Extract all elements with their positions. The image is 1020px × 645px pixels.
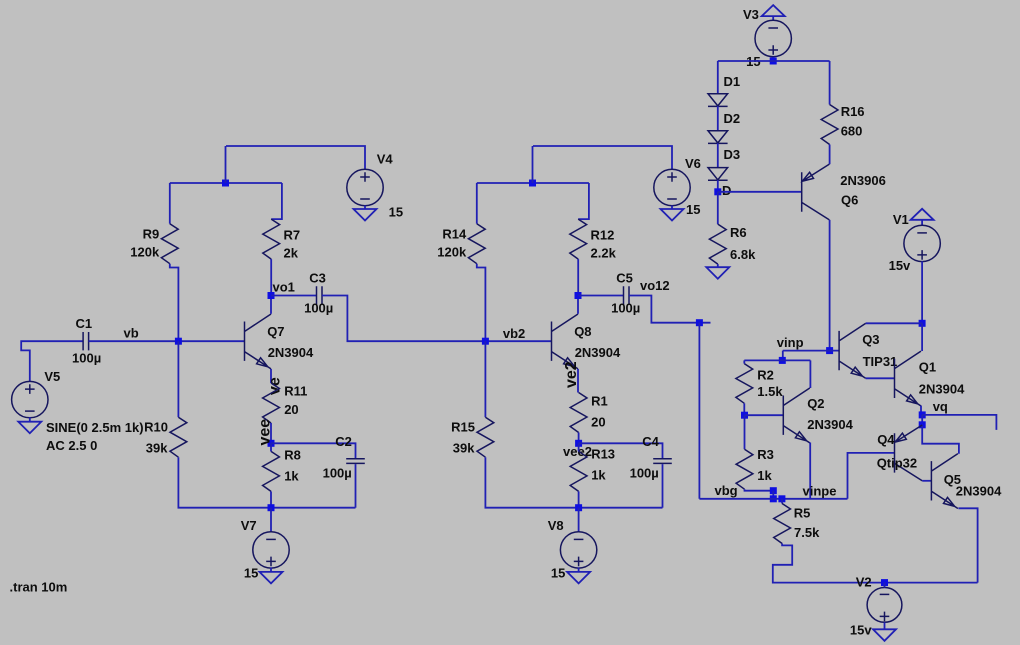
wire R3 bottom jog: [745, 489, 774, 491]
wire V2 to ground stub: [884, 622, 886, 629]
junction node vee: [268, 440, 275, 447]
svg-text:R1: R1: [591, 394, 608, 409]
svg-text:V4: V4: [377, 152, 394, 167]
wire V8 to ground stub: [578, 567, 580, 572]
junction node vb: [175, 338, 182, 345]
wire V4 to ground stub: [364, 206, 366, 210]
svg-text:R2: R2: [757, 368, 774, 383]
wire vo1 to C3: [271, 295, 317, 297]
svg-text:39k: 39k: [453, 441, 475, 456]
wire Q2 collector up: [809, 360, 811, 388]
svg-text:TIP31: TIP31: [863, 354, 898, 369]
transistor Q7: [245, 314, 272, 369]
ground above V3: [762, 5, 785, 16]
voltage source V2: [867, 588, 902, 623]
svg-text:15v: 15v: [850, 623, 872, 638]
wire V5 to C1: [21, 341, 83, 382]
svg-text:vbg: vbg: [715, 483, 738, 498]
wire to Q2 base: [745, 414, 784, 416]
ground under V7: [260, 572, 283, 584]
svg-text:2.2k: 2.2k: [591, 246, 617, 261]
svg-text:R3: R3: [757, 447, 774, 462]
resistor R10: [170, 417, 187, 457]
svg-text:vq: vq: [933, 399, 948, 414]
wire R5 top lead: [781, 499, 783, 504]
wire D2 to D3: [717, 143, 719, 167]
svg-text:7.5k: 7.5k: [794, 525, 820, 540]
wire Q8 collector to vo12: [577, 296, 579, 314]
junction C5 output corner: [696, 319, 703, 326]
wire C2 bottom: [355, 464, 357, 508]
svg-text:V2: V2: [856, 574, 872, 589]
wire R12 bottom to vo12: [577, 259, 579, 295]
transistor Q8: [552, 314, 579, 369]
wire down to Q1 collector: [921, 323, 923, 351]
svg-text:V3: V3: [743, 7, 759, 22]
svg-text:vo1: vo1: [273, 280, 295, 295]
wire D1 to D2: [717, 106, 719, 131]
svg-text:R7: R7: [284, 228, 301, 243]
voltage source V5: [12, 381, 48, 417]
wire R14-R12 rail stage2: [477, 182, 589, 184]
svg-text:1k: 1k: [284, 468, 299, 483]
svg-text:R8: R8: [284, 448, 301, 463]
wire R11 bottom to vee: [270, 423, 272, 443]
wire R9-R7 rail stage1: [170, 182, 282, 184]
svg-text:V6: V6: [685, 156, 701, 171]
wire Q3 emitter to Q1 base: [866, 377, 895, 379]
svg-text:15: 15: [551, 566, 565, 581]
svg-text:6.8k: 6.8k: [730, 247, 756, 262]
svg-text:100µ: 100µ: [611, 301, 640, 316]
svg-text:1k: 1k: [591, 468, 606, 483]
svg-text:R9: R9: [143, 227, 160, 242]
svg-text:Q7: Q7: [267, 324, 284, 339]
wire Q7 emitter to R11: [270, 369, 272, 383]
resistor R8: [263, 451, 280, 491]
junction node vo1: [268, 292, 275, 299]
wire ground to V3 stub: [772, 16, 774, 20]
wire R6 to ground lead: [717, 264, 719, 267]
wire rail to V7: [270, 508, 272, 533]
resistor R16: [821, 105, 838, 145]
resistor R11: [263, 383, 280, 423]
voltage source V8: [560, 532, 596, 568]
voltage source V6: [654, 169, 690, 205]
svg-text:C2: C2: [335, 434, 352, 449]
svg-text:120k: 120k: [437, 245, 467, 260]
junction node D: [714, 188, 721, 195]
svg-text:vb2: vb2: [503, 326, 525, 341]
wire D3 to node D: [717, 180, 719, 192]
junction Q4 emitter node: [919, 421, 926, 428]
wire Q6 collector down to vinp: [829, 220, 831, 351]
wire R1 bottom to vee2: [578, 433, 580, 444]
svg-text:15: 15: [686, 202, 700, 217]
svg-text:100µ: 100µ: [304, 301, 333, 316]
wire vee to C2: [271, 443, 356, 459]
capacitor C4: [653, 459, 672, 464]
svg-text:R5: R5: [794, 506, 811, 521]
wire V1 down to Q3 collector node: [921, 261, 923, 323]
svg-text:2N3904: 2N3904: [807, 417, 853, 432]
junction R2-R3 node: [741, 412, 748, 419]
junction node vb2: [482, 338, 489, 345]
junction V2 rail: [881, 579, 888, 586]
junction node vee2: [575, 440, 582, 447]
svg-text:100µ: 100µ: [323, 465, 352, 480]
capacitor C3: [317, 286, 323, 304]
ground under R6: [706, 267, 729, 279]
ground under V6: [661, 209, 684, 221]
capacitor C5: [624, 286, 630, 304]
wire R13 top lead: [578, 443, 580, 451]
resistor R15: [477, 417, 494, 457]
wire C5 output down: [629, 296, 711, 323]
resistor R6: [709, 224, 726, 264]
resistor R7: [263, 219, 280, 259]
wire rail to top rail stage1: [225, 146, 227, 183]
svg-text:100µ: 100µ: [630, 465, 659, 480]
svg-text:Q1: Q1: [919, 359, 936, 374]
junction node stage1 rail: [222, 180, 229, 187]
svg-text:120k: 120k: [130, 245, 160, 260]
svg-text:D: D: [722, 183, 731, 198]
svg-text:C5: C5: [616, 271, 633, 286]
wire R3 node down: [772, 491, 774, 499]
wire R9 top lead: [169, 183, 171, 224]
wire C3 to vb2 net: [322, 296, 552, 342]
wire rail to top rail stage2: [532, 146, 534, 183]
junction node vinp: [826, 347, 833, 354]
wire R7 bottom to vo1: [270, 259, 272, 295]
svg-text:15: 15: [244, 566, 258, 581]
wire rail to V8: [578, 508, 580, 533]
wire vb to R10: [177, 341, 179, 417]
wire node D to Q6 base: [718, 191, 802, 193]
wire vee2 to C4: [579, 443, 663, 459]
svg-text:AC 2.5 0: AC 2.5 0: [46, 438, 97, 453]
resistor R9: [161, 224, 178, 264]
svg-text:C4: C4: [642, 434, 659, 449]
ground under V2: [873, 629, 896, 641]
junction node vo12: [575, 292, 582, 299]
wire top rail stage2 to V6: [533, 146, 672, 170]
transistor Q2: [783, 388, 810, 443]
svg-text:R6: R6: [730, 225, 747, 240]
wire R9 bottom to vb node: [170, 264, 179, 342]
svg-text:2N3904: 2N3904: [268, 345, 314, 360]
wire stage2 bottom rail: [485, 457, 662, 508]
svg-text:R15: R15: [451, 419, 475, 434]
svg-text:R10: R10: [144, 419, 168, 434]
transistor Q4: [895, 425, 923, 481]
wire Q3 collector rail: [866, 322, 923, 324]
voltage source V1: [904, 225, 940, 261]
svg-text:C3: C3: [309, 271, 326, 286]
resistor R2: [736, 364, 753, 404]
wire Q4 collector to Q5 base: [922, 480, 931, 482]
wire R16 to Q6 emitter: [829, 145, 831, 165]
svg-text:vinpe: vinpe: [803, 484, 837, 499]
wire vo12 to C5: [578, 295, 624, 297]
wire R12 top lead: [578, 183, 589, 219]
voltage source V3: [755, 20, 791, 56]
junction stage2 bottom rail: [575, 504, 582, 511]
wire vb net: [89, 340, 245, 342]
svg-text:V5: V5: [44, 369, 60, 384]
svg-text:Qtip32: Qtip32: [877, 455, 917, 470]
svg-text:R11: R11: [284, 384, 307, 399]
junction R3 bottom: [770, 487, 777, 494]
wire diode rail: [718, 60, 830, 62]
svg-text:2N3904: 2N3904: [575, 345, 621, 360]
svg-text:Q2: Q2: [807, 396, 824, 411]
wire R2 top rail: [744, 359, 810, 361]
svg-text:39k: 39k: [146, 441, 168, 456]
svg-text:15: 15: [389, 205, 403, 220]
wire R2 bottom lead: [743, 403, 745, 415]
junction R2 top node: [779, 357, 786, 364]
ground above V1: [911, 209, 934, 220]
svg-text:vo12: vo12: [640, 278, 670, 293]
wire stage1 bottom rail: [178, 457, 355, 508]
wire R5 to bottom rail: [773, 544, 978, 583]
wire top rail stage1 to V4: [226, 146, 365, 170]
resistor R5: [774, 504, 791, 544]
diode D1: [708, 94, 728, 107]
svg-text:Q8: Q8: [574, 324, 591, 339]
diode D2: [708, 131, 728, 144]
transistor Q1: [895, 351, 922, 406]
svg-text:100µ: 100µ: [72, 351, 101, 366]
svg-text:20: 20: [591, 414, 605, 429]
resistor R3: [736, 449, 753, 489]
resistor R14: [468, 224, 485, 264]
svg-text:vee: vee: [257, 419, 274, 446]
wire ground to V1 stub: [921, 220, 923, 226]
diode D3: [708, 168, 728, 181]
svg-text:2N3904: 2N3904: [956, 483, 1002, 498]
capacitor C1: [83, 332, 89, 350]
wire R3 top lead: [744, 415, 746, 449]
svg-text:ve2: ve2: [563, 361, 580, 388]
wire vbg-vinpe net: [699, 498, 847, 500]
wire R8 bottom lead: [270, 491, 272, 507]
wire vb2 to R15: [484, 341, 486, 417]
transistor Q6: [802, 164, 830, 220]
wire vinp to Q3 base: [783, 350, 839, 352]
wire vq stub right: [922, 415, 996, 430]
svg-text:20: 20: [284, 402, 298, 417]
svg-text:2N3906: 2N3906: [840, 173, 886, 188]
wire down to vbg net: [698, 323, 700, 499]
wire Q1 emitter to vq: [920, 406, 922, 415]
svg-text:R16: R16: [841, 104, 865, 119]
junction V1-Q3-Q1 node: [919, 320, 926, 327]
wire Q7 collector to vo1: [270, 296, 272, 314]
ground under V8: [567, 572, 590, 584]
resistor R1: [570, 393, 587, 433]
svg-text:D1: D1: [724, 74, 741, 89]
wire rail to D1: [717, 61, 719, 94]
capacitor C2: [346, 459, 365, 464]
wire Q8 emitter to R1: [577, 369, 579, 393]
svg-text:Q4: Q4: [877, 432, 895, 447]
ground under V4: [354, 209, 377, 221]
wire Q5 emitter down to rail: [958, 508, 977, 582]
svg-text:Q6: Q6: [841, 193, 858, 208]
resistor R12: [570, 219, 587, 259]
junction V3 rail: [770, 58, 777, 65]
svg-text:R14: R14: [442, 227, 467, 242]
transistor Q5: [931, 454, 958, 509]
junction stage1 bottom rail: [268, 504, 275, 511]
junction vbg wire: [770, 495, 777, 502]
wire vinpe up to Q4 base: [848, 453, 895, 499]
resistor R13: [570, 451, 587, 491]
wire R13 bottom lead: [578, 491, 580, 507]
svg-text:2k: 2k: [284, 246, 299, 261]
wire node D to R6: [717, 192, 719, 224]
wire R14 bottom to vb2 node: [477, 264, 486, 342]
svg-text:vinp: vinp: [777, 335, 804, 350]
svg-text:V8: V8: [548, 518, 564, 533]
svg-text:D3: D3: [724, 147, 741, 162]
wire rail to R16: [829, 61, 831, 105]
ground under V5: [18, 422, 41, 434]
wire vinp jog down: [782, 351, 784, 361]
junction node stage2 rail: [529, 180, 536, 187]
wire R8 top lead: [270, 443, 272, 451]
svg-text:SINE(0 2.5m 1k): SINE(0 2.5m 1k): [46, 420, 144, 435]
wire vq down: [921, 415, 923, 425]
junction node vq: [919, 411, 926, 418]
svg-text:15v: 15v: [889, 258, 911, 273]
svg-text:V7: V7: [241, 518, 257, 533]
wire R14 top lead: [476, 183, 478, 224]
voltage source V4: [347, 169, 383, 205]
voltage source V7: [253, 532, 289, 568]
svg-text:R13: R13: [591, 447, 615, 462]
svg-text:1.5k: 1.5k: [757, 384, 783, 399]
svg-text:.tran 10m: .tran 10m: [10, 580, 68, 595]
wire V7 to ground stub: [270, 567, 272, 572]
svg-text:C1: C1: [76, 316, 93, 331]
wire rail to V2 stub: [884, 583, 886, 588]
wire Q2 emitter down: [809, 443, 811, 499]
junction R5 top: [778, 495, 785, 502]
wire V3 to rail stub: [772, 57, 774, 61]
svg-text:R12: R12: [591, 228, 615, 243]
wire V6 to ground stub: [671, 206, 673, 210]
wire R2 top lead: [743, 360, 745, 363]
transistor Q3: [839, 323, 866, 378]
svg-text:V1: V1: [893, 212, 909, 227]
svg-text:680: 680: [841, 124, 863, 139]
wire C4 bottom: [662, 464, 664, 508]
svg-text:1k: 1k: [757, 468, 772, 483]
wire vq to Q5 collector: [922, 425, 959, 454]
svg-text:vb: vb: [124, 325, 139, 340]
wire R7 top lead: [271, 183, 282, 219]
wire V5 to ground stub: [29, 417, 31, 421]
svg-text:Q3: Q3: [862, 332, 879, 347]
svg-text:2N3904: 2N3904: [919, 382, 965, 397]
svg-text:D2: D2: [724, 111, 741, 126]
